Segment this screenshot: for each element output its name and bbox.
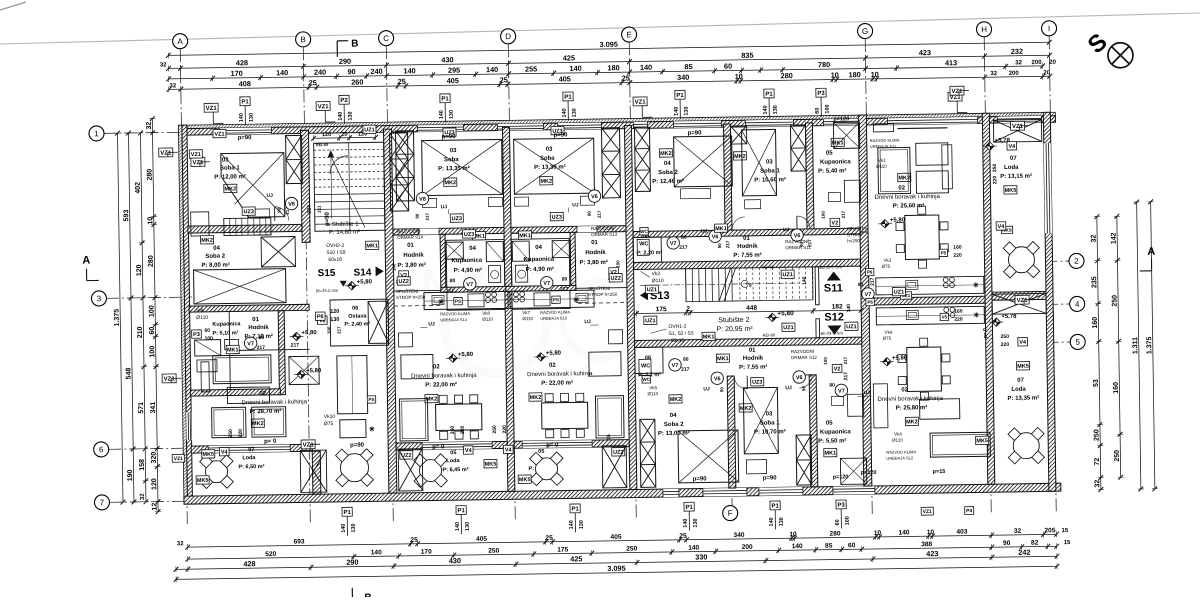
svg-text:MK2: MK2 [530, 395, 542, 401]
svg-text:MK5: MK5 [1005, 188, 1017, 194]
svg-text:32: 32 [169, 83, 176, 89]
svg-text:235: 235 [1091, 276, 1098, 288]
u3 loggia shaft [602, 446, 627, 488]
svg-text:06: 06 [352, 306, 358, 312]
svg-text:P: 3,80 m²: P: 3,80 m² [579, 259, 607, 266]
u5 shaft [640, 419, 656, 487]
svg-text:217: 217 [425, 213, 430, 221]
svg-text:130: 130 [330, 317, 339, 323]
soba1 window tag [191, 157, 205, 166]
svg-text:S10 I S9: S10 I S9 [326, 250, 345, 256]
svg-text:P: 14,80 m²: P: 14,80 m² [329, 230, 360, 236]
stairwell1 treads [314, 149, 384, 150]
grid row line 7 [109, 501, 195, 502]
grid bubble F [723, 505, 738, 520]
svg-text:P: 10,70 m²: P: 10,70 m² [754, 428, 786, 435]
svg-text:S1, S2 i S3: S1, S2 i S3 [668, 331, 693, 337]
loggia top wall midA [396, 441, 507, 450]
svg-text:02: 02 [549, 363, 556, 369]
svg-text:UZ1: UZ1 [782, 272, 792, 278]
u2 bath tags [473, 231, 486, 239]
svg-text:P3: P3 [193, 332, 200, 338]
soba1 bed [221, 153, 285, 218]
u4 v7 [862, 288, 875, 301]
svg-text:02: 02 [433, 364, 440, 370]
svg-text:405: 405 [476, 536, 487, 543]
svg-text:h=250: h=250 [847, 238, 860, 243]
dim total 3.095 top [168, 42, 1049, 55]
svg-text:413: 413 [945, 58, 957, 67]
u5 uz3 [751, 377, 764, 385]
svg-text:04: 04 [670, 413, 677, 419]
u3 loggia table [535, 458, 557, 480]
svg-text:140: 140 [239, 113, 245, 122]
svg-text:280: 280 [781, 71, 793, 80]
svg-text:OVH1-2: OVH1-2 [668, 324, 686, 330]
svg-text:90: 90 [719, 387, 724, 393]
svg-text:120: 120 [136, 264, 143, 276]
svg-text:p=90: p=90 [554, 132, 569, 138]
svg-text:182: 182 [832, 303, 843, 310]
ru sofa top [878, 147, 911, 193]
svg-text:p=120: p=120 [833, 116, 849, 122]
svg-text:Ostava: Ostava [348, 313, 367, 319]
svg-text:P: 22,00 m²: P: 22,00 m² [541, 379, 573, 386]
svg-text:01: 01 [749, 348, 756, 354]
wall band y232 midA [393, 227, 504, 235]
svg-text:+5,78: +5,78 [995, 138, 1011, 144]
svg-text:+5,80: +5,80 [301, 330, 317, 336]
u5 bed [678, 430, 739, 483]
svg-text:403: 403 [956, 529, 967, 536]
svg-text:100: 100 [326, 326, 331, 334]
svg-text:P: 13,35 m²: P: 13,35 m² [438, 165, 470, 172]
svg-text:+5,80: +5,80 [546, 351, 562, 357]
svg-text:03: 03 [546, 147, 553, 153]
svg-text:405: 405 [610, 534, 621, 541]
svg-text:WC: WC [640, 229, 648, 234]
svg-text:MK5: MK5 [197, 478, 209, 484]
svg-text:120: 120 [151, 478, 158, 490]
svg-text:UJ: UJ [701, 228, 708, 234]
svg-text:72: 72 [1094, 458, 1101, 466]
svg-text:UZ1: UZ1 [846, 324, 856, 330]
core bottom wall [635, 337, 862, 347]
grid line I [1049, 36, 1056, 514]
svg-text:130: 130 [572, 108, 578, 117]
assorted tag boxes [189, 150, 202, 158]
svg-text:+5,80: +5,80 [777, 310, 794, 317]
svg-text:3.095: 3.095 [600, 40, 618, 49]
svg-text:100: 100 [825, 104, 831, 113]
svg-text:Eb-33-C-Sm: Eb-33-C-Sm [820, 264, 843, 269]
watermark [419, 254, 639, 374]
svg-text:175: 175 [656, 306, 667, 313]
dim right inner [1137, 202, 1141, 489]
svg-text:04: 04 [664, 161, 671, 167]
svg-text:MK2: MK2 [444, 180, 456, 186]
loggia SE table [1013, 433, 1039, 459]
svg-text:Soba 2: Soba 2 [205, 254, 225, 260]
wall F top [723, 124, 732, 234]
stairs2 treads solid [685, 269, 687, 302]
svg-text:280: 280 [148, 255, 155, 267]
u5 wc fix [639, 359, 651, 375]
svg-text:VZ1: VZ1 [303, 442, 315, 448]
top wall flags [240, 97, 250, 106]
svg-text:430: 430 [441, 55, 453, 64]
u2 v2tag [399, 271, 409, 279]
svg-text:593: 593 [123, 210, 130, 222]
dim row segments top [169, 55, 1050, 68]
svg-text:90: 90 [1003, 540, 1011, 547]
svg-text:S12: S12 [824, 311, 844, 323]
stairs2 treads dashed [739, 268, 741, 301]
svg-text:04: 04 [535, 245, 542, 251]
u4 v6 circles [709, 230, 722, 243]
svg-text:520: 520 [265, 551, 276, 558]
svg-text:140: 140 [276, 68, 288, 77]
svg-text:UJ: UJ [572, 202, 579, 208]
svg-text:60x16: 60x16 [671, 338, 685, 344]
soba1 shaft [286, 135, 303, 183]
svg-text:130: 130 [779, 517, 785, 526]
svg-text:2: 2 [1074, 257, 1079, 266]
grid bubble 3 [91, 291, 106, 306]
svg-text:REI-60: REI-60 [763, 332, 776, 337]
stairwell1 mid rail [349, 143, 350, 231]
svg-text:P1: P1 [765, 92, 773, 98]
svg-text:p= 0: p= 0 [982, 328, 988, 338]
svg-text:WC: WC [639, 241, 648, 247]
svg-text:423: 423 [926, 549, 938, 558]
svg-text:140: 140 [640, 63, 652, 72]
svg-text:80: 80 [683, 357, 689, 363]
L living sofa [213, 355, 271, 384]
svg-text:Loda: Loda [1011, 387, 1026, 393]
svg-text:+5,80: +5,80 [306, 368, 322, 374]
svg-text:25: 25 [410, 537, 418, 544]
u4 bath fixtures [844, 180, 860, 202]
svg-text:MK2: MK2 [201, 238, 213, 244]
svg-text:217: 217 [841, 210, 846, 218]
svg-text:200: 200 [1032, 60, 1043, 66]
svg-text:60: 60 [848, 542, 856, 549]
u4 doors [732, 217, 745, 230]
grid bubble 4 [1070, 296, 1085, 311]
svg-text:P: 25,80 m²: P: 25,80 m² [896, 404, 928, 411]
svg-text:140: 140 [683, 519, 689, 528]
left bath wall v [278, 311, 285, 395]
svg-text:MK1: MK1 [703, 334, 715, 340]
svg-text:03: 03 [450, 148, 457, 154]
grid row line 3 [106, 297, 192, 298]
svg-text:Ø110: Ø110 [652, 278, 664, 284]
svg-text:Ø110: Ø110 [647, 391, 658, 396]
grid row line 6 [108, 448, 194, 449]
kupaonica L fixtures [195, 340, 221, 356]
svg-text:✳: ✳ [973, 281, 979, 289]
u3 bed tables [514, 197, 528, 206]
svg-text:MK5: MK5 [1017, 364, 1029, 370]
svg-text:190: 190 [127, 469, 134, 481]
svg-text:220: 220 [238, 429, 244, 438]
svg-text:P: 6,45 m²: P: 6,45 m² [442, 466, 468, 473]
ru kitchen bottom [876, 306, 984, 325]
svg-text:Hodnik: Hodnik [743, 356, 764, 362]
stair1 up arrow [330, 154, 333, 219]
svg-text:P: 7,10 m²: P: 7,10 m² [244, 333, 272, 340]
dim bottom row 520 [188, 546, 1057, 559]
svg-text:07: 07 [1017, 378, 1024, 384]
grid line D [508, 44, 515, 522]
svg-text:240: 240 [370, 67, 382, 76]
svg-text:140: 140 [338, 112, 344, 121]
u3 v2tag [609, 268, 619, 276]
svg-text:UJ: UJ [785, 385, 792, 391]
svg-text:S15: S15 [318, 268, 336, 279]
svg-text:RAZVODNI: RAZVODNI [397, 229, 420, 234]
left soba2 bottom wall [189, 304, 309, 312]
stairs2 walkline [640, 283, 800, 285]
svg-text:428: 428 [243, 559, 255, 568]
svg-text:UJ: UJ [863, 390, 870, 396]
svg-text:Soba 1: Soba 1 [760, 420, 780, 426]
u5 partitions [635, 347, 663, 373]
svg-text:B: B [300, 35, 305, 44]
svg-text:120: 120 [322, 132, 331, 138]
svg-text:Soba 1: Soba 1 [220, 165, 240, 171]
svg-text:VZ1: VZ1 [951, 89, 963, 95]
svg-text:140: 140 [802, 276, 808, 285]
svg-text:90: 90 [587, 211, 592, 217]
svg-text:220: 220 [992, 176, 998, 185]
svg-text:V4: V4 [465, 448, 473, 454]
svg-text:07: 07 [1010, 156, 1017, 162]
svg-text:06: 06 [645, 355, 651, 361]
svg-text:250: 250 [488, 548, 499, 555]
loggia mid xbox [992, 293, 1046, 314]
svg-text:60: 60 [204, 328, 210, 334]
svg-text:P: 13,35 m²: P: 13,35 m² [1007, 394, 1039, 401]
u4 bed2 [742, 129, 777, 195]
UZ1 stair1 [363, 125, 376, 133]
svg-text:WC: WC [642, 377, 650, 382]
dim right outer [1097, 217, 1101, 490]
svg-text:P: 5,10 m²: P: 5,10 m² [212, 329, 238, 336]
svg-text:ORMAR S12: ORMAR S12 [791, 355, 818, 360]
svg-text:05: 05 [826, 421, 833, 427]
ru kitchen top [876, 276, 984, 295]
svg-text:A: A [177, 37, 183, 46]
svg-text:A: A [82, 255, 90, 267]
svg-text:280: 280 [829, 530, 840, 537]
svg-text:P: 7,55 m²: P: 7,55 m² [733, 252, 761, 259]
svg-text:Eb-33-C-Sm: Eb-33-C-Sm [821, 330, 844, 335]
ru +580 bottom [883, 357, 892, 366]
svg-text:UJ: UJ [441, 204, 448, 210]
u3 kitchen [510, 290, 594, 308]
svg-text:V7: V7 [247, 341, 254, 347]
band door gaps [419, 228, 439, 234]
wall F bottom [727, 376, 736, 488]
dim left 1.375 [118, 133, 123, 502]
u3 +580 [537, 353, 546, 362]
ru table bottom [907, 347, 942, 391]
core mk1 [702, 332, 715, 340]
svg-text:V7: V7 [865, 292, 872, 298]
svg-text:UZ1: UZ1 [645, 318, 655, 324]
soba1 door [275, 207, 289, 221]
wall band y232 rightmid [633, 228, 860, 237]
outer wall left [182, 125, 193, 503]
svg-text:P: 8,00 m²: P: 8,00 m² [201, 261, 229, 268]
svg-text:405: 405 [447, 76, 459, 85]
svg-text:10: 10 [927, 529, 935, 536]
svg-text:140: 140 [371, 549, 382, 556]
svg-text:1.375: 1.375 [1146, 336, 1153, 354]
svg-text:217: 217 [597, 210, 602, 218]
svg-text:140: 140 [439, 110, 445, 119]
scan paper edge line [0, 13, 1200, 44]
svg-text:4: 4 [1075, 300, 1080, 309]
ru +580 top [881, 220, 890, 229]
svg-text:130: 130 [348, 111, 354, 120]
dim left 593 [129, 133, 134, 502]
svg-text:P6: P6 [867, 270, 873, 275]
soba1 wardrobe [224, 218, 271, 236]
outer wall left insulation [178, 125, 187, 503]
svg-text:04: 04 [469, 246, 476, 252]
svg-text:S14: S14 [354, 267, 372, 278]
svg-text:V6: V6 [712, 234, 719, 240]
grid line C [386, 46, 393, 524]
svg-text:100: 100 [149, 305, 156, 317]
u2 loggia shaft [398, 449, 423, 491]
core mid dims [636, 310, 861, 313]
svg-text:80: 80 [829, 383, 835, 389]
svg-text:P3: P3 [817, 91, 825, 97]
svg-text:p=120: p=120 [861, 470, 877, 476]
grid bubble 5 [1070, 334, 1085, 349]
svg-text:E: E [626, 30, 631, 39]
svg-text:WC: WC [641, 363, 650, 369]
L loggia wall [312, 451, 321, 494]
svg-text:160: 160 [954, 309, 963, 315]
svg-text:05: 05 [450, 450, 456, 456]
svg-text:+5,80: +5,80 [890, 217, 906, 223]
svg-text:Ø110: Ø110 [892, 438, 903, 443]
wall band y232 midB [511, 226, 626, 234]
svg-text:P1: P1 [685, 505, 693, 511]
svg-text:100: 100 [821, 211, 826, 219]
svg-text:V7: V7 [670, 241, 677, 247]
u2 bath fixtures [445, 242, 463, 259]
svg-text:p=90: p=90 [763, 475, 778, 481]
left living top wall [190, 389, 280, 396]
svg-text:835: 835 [741, 51, 753, 60]
svg-text:UJ: UJ [703, 386, 710, 392]
svg-text:VZ1: VZ1 [206, 106, 218, 112]
u2 +580 [449, 354, 458, 363]
svg-text:P: 22,00 m²: P: 22,00 m² [425, 381, 457, 388]
svg-text:STROP: STROP [847, 232, 863, 237]
svg-text:90: 90 [277, 207, 282, 213]
svg-text:130: 130 [249, 113, 255, 122]
svg-text:+5,80: +5,80 [357, 279, 373, 285]
svg-text:158: 158 [139, 459, 146, 471]
svg-text:160: 160 [1113, 382, 1120, 394]
svg-text:UREĐAJA S12: UREĐAJA S12 [886, 455, 914, 460]
svg-text:100: 100 [205, 336, 214, 342]
svg-text:60: 60 [835, 519, 841, 525]
stairs2 cut diagonal [719, 268, 731, 301]
svg-text:P1: P1 [343, 510, 351, 516]
svg-text:MK2: MK2 [670, 397, 682, 403]
svg-text:320: 320 [151, 452, 158, 464]
svg-text:VZ1: VZ1 [1017, 298, 1029, 304]
section mark B bottom [351, 588, 353, 601]
MK1 stair lobby [366, 241, 379, 249]
svg-text:RAZVODNI: RAZVODNI [791, 349, 814, 354]
svg-text:260: 260 [351, 77, 363, 86]
svg-text:Hodnik: Hodnik [248, 325, 269, 331]
svg-text:15: 15 [1064, 540, 1071, 546]
svg-text:V4: V4 [1008, 144, 1016, 150]
u3 uz2 [612, 448, 625, 456]
svg-text:100: 100 [823, 357, 828, 365]
svg-text:REI-60: REI-60 [762, 264, 775, 269]
L loggia mk5 [196, 476, 209, 484]
svg-text:p=90: p=90 [442, 134, 457, 140]
svg-text:140: 140 [403, 66, 415, 75]
svg-text:RAZVODNI: RAZVODNI [785, 239, 808, 244]
dim right mid [1117, 216, 1121, 477]
loggia NE table [1008, 247, 1034, 273]
svg-text:Vk1: Vk1 [878, 158, 886, 163]
svg-text:S11: S11 [824, 282, 843, 294]
svg-text:RAZVOD KLIMA: RAZVOD KLIMA [870, 138, 900, 143]
svg-text:210: 210 [137, 326, 144, 338]
u5 mk1 corridor [716, 354, 729, 362]
svg-text:250: 250 [492, 425, 498, 434]
grid row line 1 [104, 132, 190, 133]
svg-text:04: 04 [213, 246, 220, 252]
svg-text:P1: P1 [457, 508, 465, 514]
grid line B [303, 47, 310, 525]
svg-text:140: 140 [341, 524, 347, 533]
svg-text:250: 250 [1001, 334, 1010, 340]
svg-text:140: 140 [486, 65, 498, 74]
svg-text:ORMAR S14: ORMAR S14 [397, 235, 424, 240]
u4 mid wall shaft [730, 126, 746, 144]
svg-text:250: 250 [228, 429, 234, 438]
svg-text:175: 175 [557, 546, 568, 553]
svg-text:1.311: 1.311 [1132, 337, 1139, 354]
loggia NE 578 [986, 142, 995, 151]
svg-text:UZ3: UZ3 [552, 215, 562, 221]
svg-text:548: 548 [125, 368, 132, 380]
svg-text:20: 20 [1043, 70, 1050, 76]
svg-text:p=90: p=90 [350, 443, 365, 449]
svg-text:SPUŠTEN: SPUŠTEN [847, 225, 868, 231]
svg-text:G: G [862, 27, 868, 36]
svg-text:MK1: MK1 [519, 233, 531, 239]
svg-text:VZ1: VZ1 [164, 377, 176, 383]
svg-text:MK2: MK2 [660, 151, 672, 157]
+5,80 core [768, 313, 777, 322]
svg-text:140: 140 [688, 545, 699, 552]
